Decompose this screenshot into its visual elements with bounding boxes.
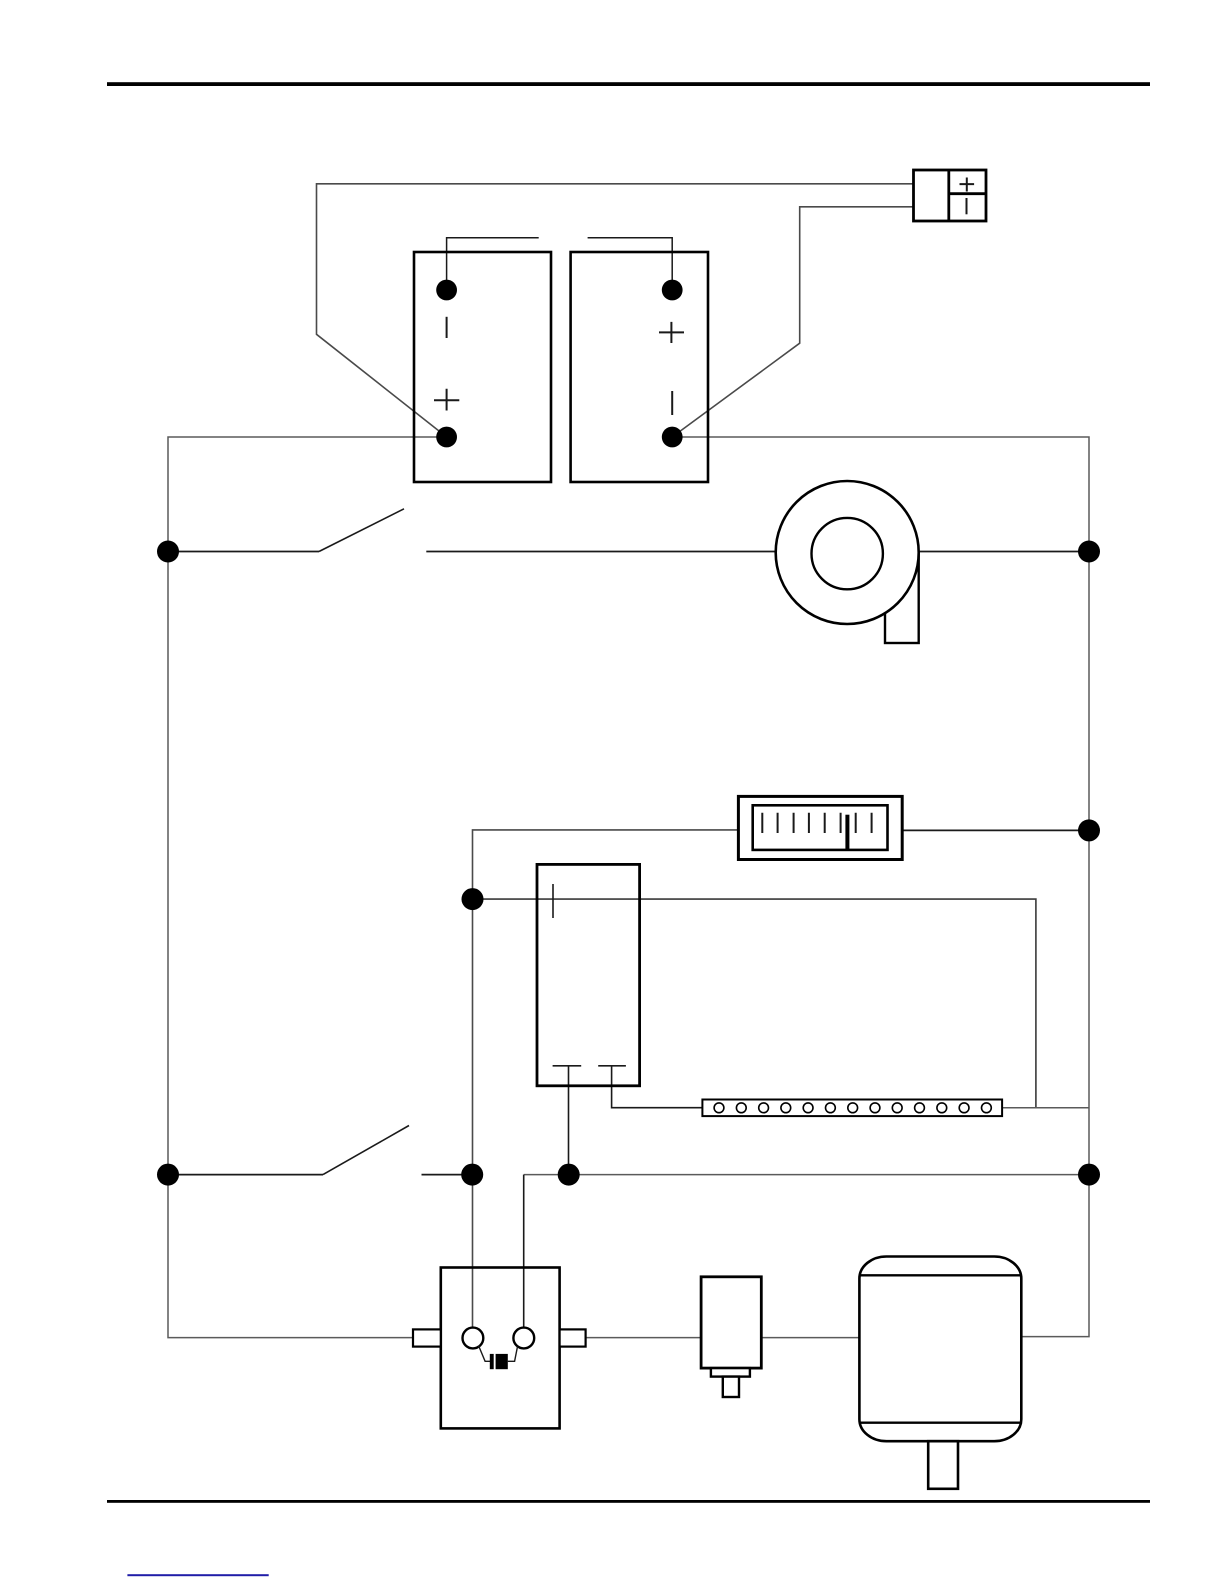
battery B1 plus mark [434,389,459,411]
wire: top switch row right segment to blower M1 [426,551,1089,553]
wire: bottom switch row to node A [422,1174,473,1176]
switch S1 blade [319,509,404,552]
battery B1 top terminal [436,280,457,301]
tank motor M3 body [859,1257,1021,1442]
wire: bottom switch row left segment [168,1174,323,1176]
solenoid K1 right contact bar [598,1065,626,1067]
tank motor M3 bottom band [860,1421,1020,1423]
connector J1 cell divider [949,192,986,195]
connector J1 divider [947,170,950,221]
diode D1 cathode bar [490,1354,494,1369]
node: left rail bottom switch junction [157,1164,179,1186]
terminal strip TB1 screws [714,1103,991,1113]
wire: jumper bracket from B1 top terminal [447,238,539,290]
diode D1 anode lead [508,1347,518,1362]
battery B1 minus mark [446,317,448,338]
bottom page rule [107,1500,1150,1503]
circuit breaker CB1 stud [723,1377,739,1397]
wire: gauge row right segment to right rail [902,829,1089,831]
wire: battery B2 negative to connector J1 [672,207,913,437]
wire: terminal strip TB1 to right rail [1002,1107,1089,1109]
gauge M2 needle [845,815,849,850]
battery B2 plus mark [659,322,684,343]
battery B1 bottom terminal [436,427,457,448]
wire: solenoid K1 coil feed through body to right drop [473,899,1036,1108]
terminal strip TB1 body [702,1100,1002,1117]
wire: gauge row left segment [473,830,739,1328]
gauge M2 scale ticks [762,813,871,833]
charger receptacle J2 right tab [560,1329,586,1346]
node: right rail top switch junction [1078,541,1100,563]
blower motor M1 housing [776,481,919,624]
tank motor M3 top band [860,1274,1020,1276]
node A bottom row [461,1164,483,1186]
charger receptacle J2 left pin [463,1328,484,1349]
circuit breaker CB1 base step [711,1368,750,1377]
footer link underline [127,1574,268,1576]
battery B2 top terminal [662,280,683,301]
wire: solenoid K1 left stem down to node row [568,1066,570,1175]
wire: node B corner run to right rail [524,1174,1089,1176]
tank motor M3 stud [928,1441,958,1489]
connector J1 body [914,170,987,221]
diode D1 body [496,1354,508,1369]
charger receptacle J2 body [441,1268,560,1429]
wire: right rail from B2 minus terminal down to tank motor [672,437,1089,1337]
wire: battery B1 positive to connector J1 (top run) [317,184,914,437]
solenoid K1 coil terminal mark [552,884,554,918]
node: right rail gauge junction [1078,819,1100,841]
top page rule [107,82,1150,86]
wire: solenoid K1 right stem down and over to terminal strip TB1 [612,1066,703,1108]
node B bottom row [558,1164,580,1186]
gauge M2 inner window [753,805,888,850]
blower motor M1 hub [812,518,883,589]
switch S2 blade [323,1126,409,1175]
solenoid K1 left contact bar [553,1065,582,1067]
wire: charger row between breaker CB1 and tank motor M3 [761,1337,859,1339]
battery B1 body [414,252,551,482]
blower motor M1 outlet tab [885,553,919,644]
wire: drop from corner to charger receptacle right pin [523,1175,525,1328]
node: left rail top switch junction [157,541,179,563]
wire: top switch row left segment [168,551,319,553]
node: solenoid coil branch junction [462,888,484,910]
charger receptacle J2 right pin [513,1328,534,1349]
charger receptacle J2 left tab [413,1329,441,1346]
battery B2 body [571,252,708,482]
node: right rail bottom switch junction [1078,1164,1100,1186]
connector J1 minus mark [966,198,968,214]
wire: left rail from B1 plus terminal down to charger receptacle [168,437,447,1338]
wire: charger row between receptacle and breaker CB1 [586,1337,702,1339]
battery B2 minus mark [671,391,673,415]
connector J1 plus mark [960,178,975,192]
circuit breaker CB1 body [701,1277,761,1368]
solenoid K1 body [537,864,640,1085]
gauge M2 outer case [738,796,902,859]
diode D1 cathode lead [479,1346,491,1362]
battery B2 bottom terminal [662,427,683,448]
wire: jumper bracket from B2 top terminal [588,238,673,290]
